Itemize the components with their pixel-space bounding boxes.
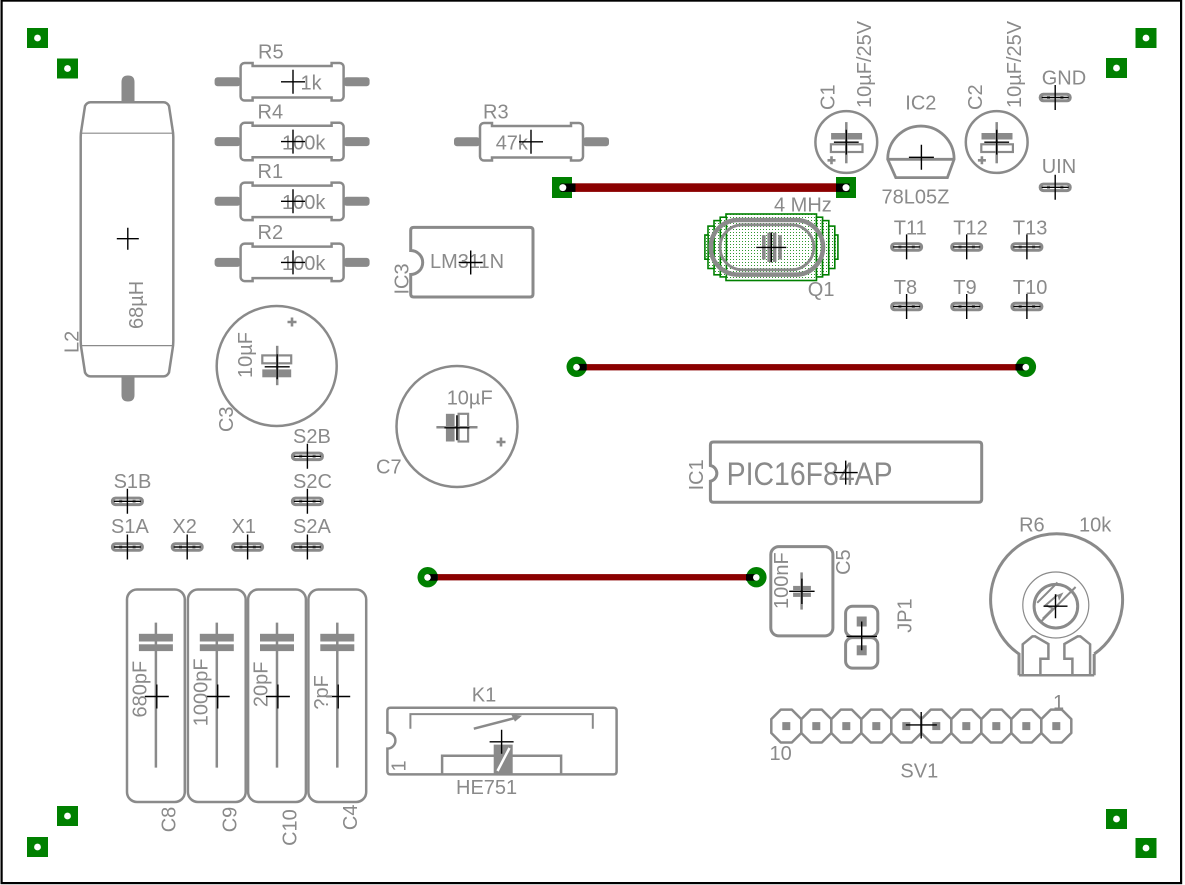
corner pad bottom-right outer bbox=[1136, 838, 1157, 858]
corner pad bottom-left inner bbox=[57, 806, 78, 826]
test pad T9 bbox=[950, 277, 983, 319]
svg-text:R5: R5 bbox=[258, 42, 284, 64]
corner pad top-right outer bbox=[1136, 28, 1157, 48]
svg-text:L2: L2 bbox=[62, 331, 84, 353]
svg-text:GND: GND bbox=[1042, 68, 1086, 90]
test pad T10 bbox=[1010, 277, 1047, 319]
wire net3 via right bbox=[746, 567, 767, 587]
corner pad bottom-right inner bbox=[1106, 809, 1127, 829]
svg-text:100k: 100k bbox=[282, 132, 326, 154]
svg-text:JP1: JP1 bbox=[894, 598, 916, 632]
svg-text:C4: C4 bbox=[340, 805, 362, 831]
capacitor C7 bbox=[376, 366, 518, 487]
wire net2 via left bbox=[567, 357, 587, 377]
svg-text:UIN: UIN bbox=[1042, 156, 1076, 178]
svg-text:?pF: ?pF bbox=[311, 675, 333, 709]
potentiometer R6 bbox=[991, 515, 1123, 676]
svg-text:C2: C2 bbox=[965, 84, 987, 110]
svg-text:T10: T10 bbox=[1013, 277, 1047, 299]
svg-text:X1: X1 bbox=[232, 516, 256, 538]
capacitor C5 bbox=[771, 547, 855, 636]
svg-text:R6: R6 bbox=[1019, 515, 1045, 537]
svg-text:S2A: S2A bbox=[293, 516, 331, 538]
test pad T12 bbox=[950, 217, 988, 259]
svg-text:1: 1 bbox=[1053, 692, 1064, 714]
svg-text:10k: 10k bbox=[1079, 515, 1112, 537]
svg-text:PIC16F84AP: PIC16F84AP bbox=[727, 456, 893, 492]
svg-text:T11: T11 bbox=[894, 217, 927, 239]
solder pad X2 bbox=[171, 516, 204, 560]
resistor R4 bbox=[215, 101, 370, 160]
resistor R3 bbox=[454, 102, 609, 161]
capacitor C1 bbox=[815, 20, 877, 173]
svg-text:10: 10 bbox=[770, 743, 792, 765]
pin header SV1 bbox=[770, 692, 1072, 783]
svg-text:K1: K1 bbox=[472, 685, 496, 707]
svg-text:T9: T9 bbox=[953, 277, 976, 299]
svg-text:1000pF: 1000pF bbox=[191, 658, 213, 726]
corner pad top-left outer bbox=[27, 28, 48, 48]
wire net1 pad left bbox=[552, 177, 576, 198]
op-amp IC3 LM311N bbox=[392, 227, 534, 297]
svg-text:10µF/25V: 10µF/25V bbox=[1004, 20, 1026, 108]
capacitor C9 bbox=[188, 590, 246, 833]
solder pad S1B bbox=[111, 471, 152, 514]
corner pad bottom-left outer bbox=[27, 837, 48, 857]
svg-text:100k: 100k bbox=[282, 253, 326, 275]
test pad T13 bbox=[1010, 217, 1047, 259]
svg-text:C3: C3 bbox=[216, 406, 238, 432]
resistor R1 bbox=[215, 161, 370, 220]
solder pad S2A bbox=[291, 516, 332, 560]
svg-text:HE751: HE751 bbox=[456, 777, 517, 799]
resistor R5 bbox=[215, 42, 370, 101]
solder pad S2B bbox=[291, 426, 331, 469]
svg-text:10µF: 10µF bbox=[447, 387, 493, 409]
svg-text:Q1: Q1 bbox=[808, 279, 835, 301]
svg-text:C7: C7 bbox=[376, 457, 402, 479]
relay K1 HE751 bbox=[387, 685, 616, 800]
svg-text:S1A: S1A bbox=[111, 516, 149, 538]
crystal Q1 bbox=[705, 195, 838, 301]
test pad GND bbox=[1039, 68, 1086, 110]
capacitor C10 bbox=[248, 590, 306, 846]
svg-text:C9: C9 bbox=[219, 807, 241, 833]
solder pad S2C bbox=[291, 471, 332, 514]
svg-text:10µF/25V: 10µF/25V bbox=[854, 20, 876, 108]
capacitor C4 bbox=[308, 590, 366, 831]
inductor L2 bbox=[62, 77, 174, 400]
svg-text:C10: C10 bbox=[280, 809, 302, 846]
corner pad top-right inner bbox=[1106, 58, 1127, 78]
test pad T11 bbox=[890, 217, 927, 259]
corner pad top-left inner bbox=[57, 59, 78, 79]
wire net2 trace bbox=[580, 364, 1022, 370]
voltage regulator IC2 78L05Z bbox=[882, 93, 955, 209]
svg-text:S2B: S2B bbox=[293, 426, 331, 448]
svg-text:T12: T12 bbox=[953, 217, 987, 239]
svg-text:100k: 100k bbox=[282, 192, 326, 214]
test pad UIN bbox=[1039, 156, 1076, 200]
capacitor C2 bbox=[965, 20, 1028, 173]
capacitor C8 bbox=[127, 590, 185, 833]
svg-text:T8: T8 bbox=[894, 277, 917, 299]
wire net1 pad right bbox=[836, 177, 856, 198]
svg-text:S2C: S2C bbox=[293, 471, 332, 493]
svg-text:SV1: SV1 bbox=[900, 761, 938, 783]
svg-text:X2: X2 bbox=[172, 516, 196, 538]
svg-text:10µF: 10µF bbox=[235, 332, 257, 378]
capacitor C3 bbox=[216, 306, 337, 432]
microcontroller IC1 PIC16F84AP bbox=[686, 442, 982, 502]
svg-text:1k: 1k bbox=[301, 73, 323, 95]
wire net2 via right bbox=[1016, 357, 1037, 377]
svg-text:T13: T13 bbox=[1013, 217, 1047, 239]
svg-text:C5: C5 bbox=[833, 549, 855, 575]
svg-text:20pF: 20pF bbox=[251, 662, 273, 708]
test pad T8 bbox=[890, 277, 923, 319]
svg-text:C8: C8 bbox=[158, 807, 180, 833]
solder pad X1 bbox=[231, 516, 264, 560]
svg-text:IC3: IC3 bbox=[392, 263, 414, 294]
svg-text:IC2: IC2 bbox=[905, 93, 936, 115]
svg-text:680pF: 680pF bbox=[130, 661, 152, 718]
resistor R2 bbox=[215, 222, 370, 281]
wire net3 via left bbox=[418, 567, 438, 587]
svg-text:C1: C1 bbox=[818, 84, 840, 110]
svg-text:78L05Z: 78L05Z bbox=[882, 187, 950, 209]
svg-text:R4: R4 bbox=[258, 101, 284, 123]
svg-text:47k: 47k bbox=[496, 133, 529, 155]
svg-text:IC1: IC1 bbox=[686, 459, 708, 490]
svg-text:R1: R1 bbox=[258, 161, 284, 183]
svg-text:S1B: S1B bbox=[114, 471, 152, 493]
svg-text:68µH: 68µH bbox=[126, 281, 148, 329]
svg-text:1: 1 bbox=[389, 760, 411, 771]
jumper JP1 bbox=[846, 598, 917, 668]
svg-text:R2: R2 bbox=[258, 222, 284, 244]
svg-text:R3: R3 bbox=[483, 102, 509, 124]
solder pad S1A bbox=[111, 516, 150, 560]
svg-text:100nF: 100nF bbox=[771, 552, 793, 609]
wire net1 trace bbox=[566, 183, 842, 192]
svg-text:4 MHz: 4 MHz bbox=[774, 195, 832, 217]
wire net3 trace bbox=[431, 574, 753, 580]
